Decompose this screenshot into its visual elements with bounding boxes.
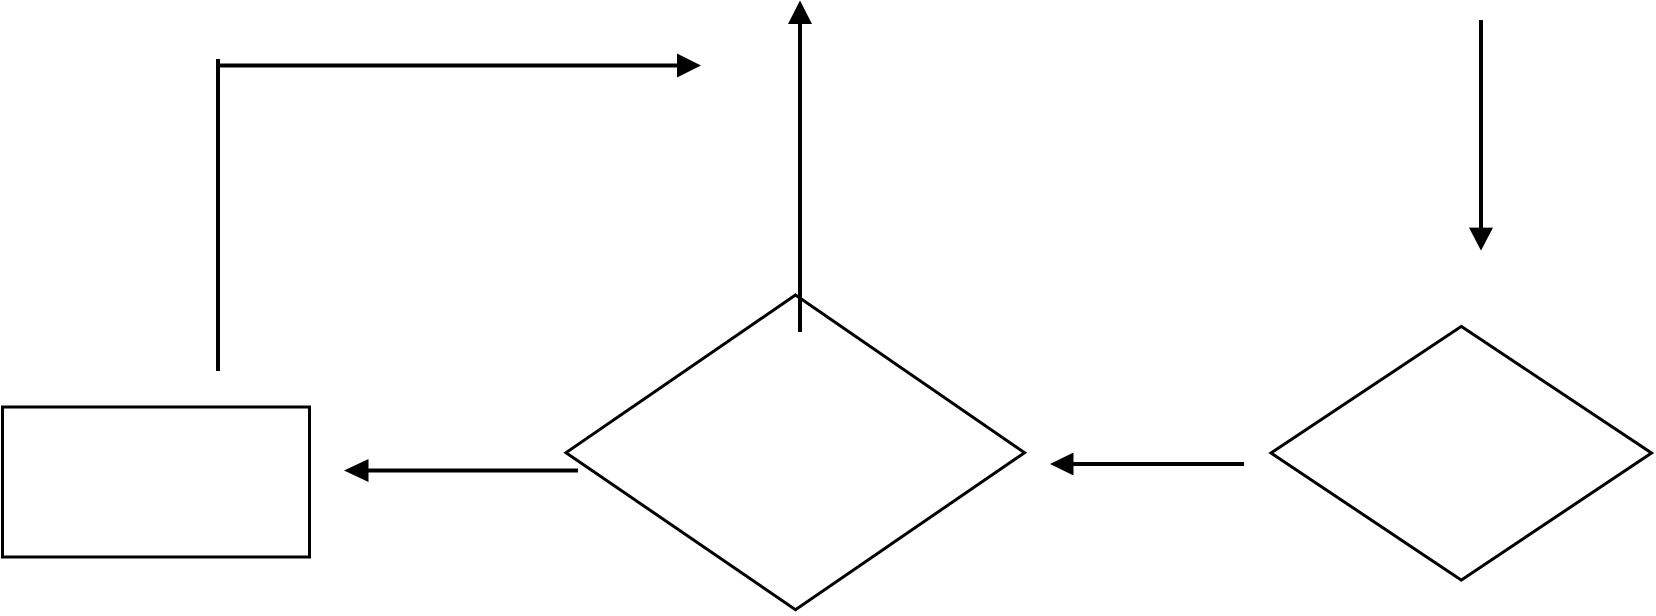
wire: vertical segment of top-left elbow connector [216, 59, 220, 371]
arrowhead: right-pointing head of elbow connector [677, 54, 701, 78]
arrow: downward at top-right (points down) [1469, 20, 1493, 251]
decision diamond: right diamond [1271, 326, 1652, 580]
arrow: from center diamond to rectangle (points left) [344, 459, 578, 482]
wire: horizontal segment of top-left elbow connector [216, 64, 677, 68]
arrow: from right diamond to center diamond (points left) [1050, 453, 1244, 476]
decision diamond: large center diamond [566, 295, 1025, 610]
process box: rectangle bottom-left [3, 407, 310, 557]
arrow: upward from center diamond top (points up) [788, 1, 812, 333]
